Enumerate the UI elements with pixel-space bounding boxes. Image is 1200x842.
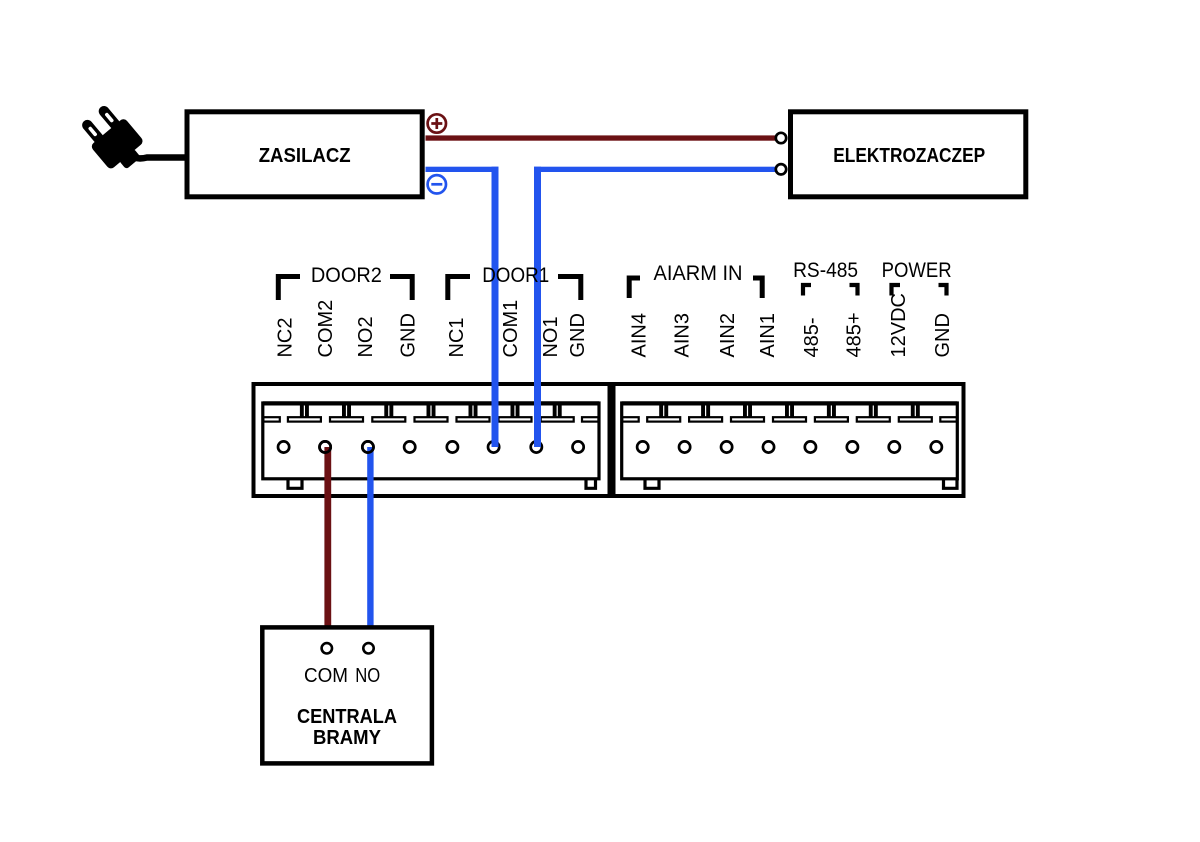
svg-text:NO1: NO1 (540, 316, 562, 357)
svg-text:NC2: NC2 (274, 317, 296, 357)
svg-text:AIARM IN: AIARM IN (654, 261, 743, 285)
svg-text:NO: NO (355, 664, 380, 687)
svg-text:POWER: POWER (882, 258, 952, 282)
svg-text:NC1: NC1 (446, 317, 468, 357)
svg-text:ELEKTROZACZEP: ELEKTROZACZEP (833, 145, 985, 167)
svg-text:COM: COM (304, 664, 348, 687)
svg-text:NO2: NO2 (355, 316, 377, 357)
svg-text:485-: 485- (801, 317, 823, 357)
svg-text:GND: GND (398, 313, 420, 357)
svg-text:AIN4: AIN4 (629, 313, 651, 357)
svg-text:AIN1: AIN1 (757, 313, 779, 357)
svg-text:ZASILACZ: ZASILACZ (259, 145, 351, 167)
svg-text:COM2: COM2 (315, 300, 337, 358)
svg-text:GND: GND (567, 313, 589, 357)
svg-text:AIN2: AIN2 (717, 313, 739, 357)
svg-text:DOOR2: DOOR2 (311, 263, 382, 287)
svg-text:485+: 485+ (844, 312, 866, 357)
svg-text:GND: GND (932, 313, 954, 357)
svg-text:12VDC: 12VDC (888, 293, 910, 357)
svg-text:CENTRALA: CENTRALA (297, 706, 397, 728)
svg-text:AIN3: AIN3 (672, 313, 694, 357)
svg-text:COM1: COM1 (500, 300, 522, 358)
svg-text:DOOR1: DOOR1 (482, 263, 549, 287)
svg-text:BRAMY: BRAMY (313, 727, 382, 749)
svg-text:RS-485: RS-485 (793, 258, 858, 282)
